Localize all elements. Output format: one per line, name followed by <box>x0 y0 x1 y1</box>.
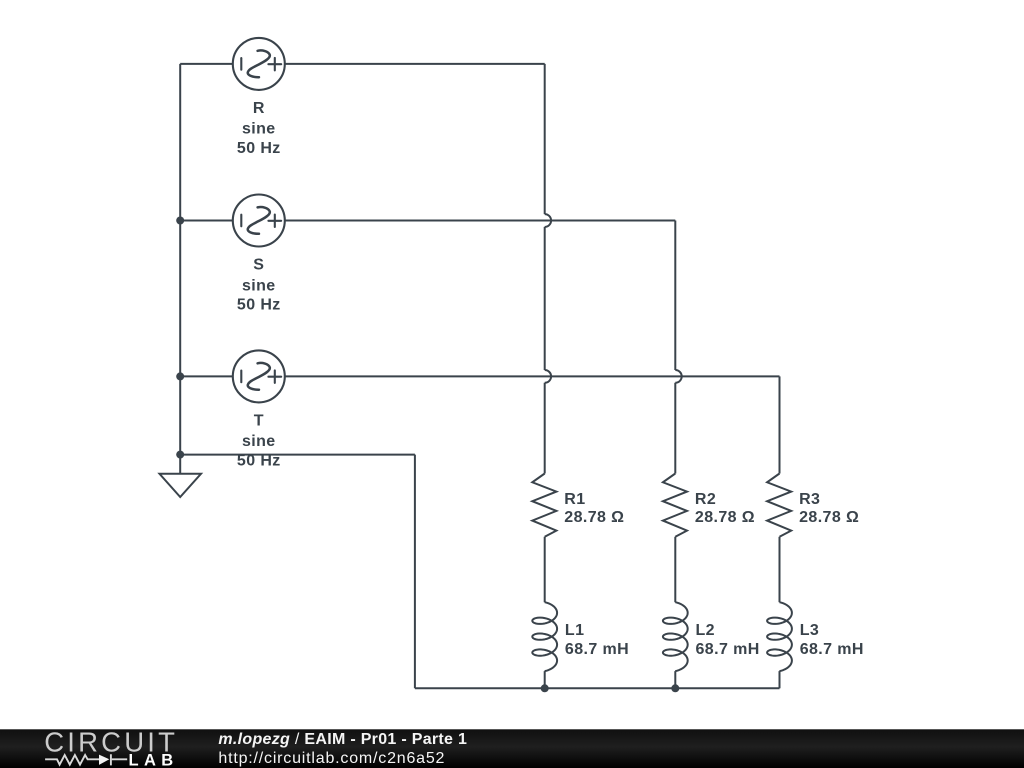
wire <box>544 537 546 602</box>
node node ground rail <box>176 451 184 459</box>
hop: branch1 over T row <box>545 370 551 383</box>
resistor R1 <box>532 474 556 537</box>
inductor L1 <box>532 602 557 671</box>
ground <box>160 455 202 497</box>
resistor R3 <box>767 474 791 537</box>
wire <box>674 537 676 602</box>
node node branch2 bottom <box>671 684 679 692</box>
wire <box>779 537 781 602</box>
hop: branch1 over S row <box>545 214 551 227</box>
wire: left rail <box>179 64 181 455</box>
node node T rail <box>176 372 184 380</box>
voltage source S (V2) <box>233 195 285 247</box>
wire: branch2 vertical <box>674 221 676 371</box>
wire: ground row <box>180 454 415 456</box>
wire <box>779 671 781 688</box>
node node S rail <box>176 217 184 225</box>
wire: S row <box>180 220 675 222</box>
svg-text:http://circuitlab.com/c2n6a52: http://circuitlab.com/c2n6a52 <box>218 750 445 767</box>
wire <box>544 227 546 370</box>
wire: neutral down <box>414 455 416 689</box>
wire: branch3 vertical <box>779 376 781 473</box>
wire <box>544 671 546 688</box>
wire: T row <box>180 375 779 377</box>
logo resistor-diode graphic <box>45 754 127 765</box>
wire <box>674 383 676 474</box>
wire: bottom rail <box>415 687 780 689</box>
wire <box>544 383 546 474</box>
svg-text:m.lopezg / EAIM - Pr01 - Parte: m.lopezg / EAIM - Pr01 - Parte 1 <box>218 731 467 748</box>
wire: branch1 vertical <box>544 64 546 214</box>
resistor R2 <box>663 474 687 537</box>
node node branch1 bottom <box>541 684 549 692</box>
wire <box>674 671 676 688</box>
voltage source R (V1) <box>233 38 285 90</box>
hop: branch2 over T row <box>675 370 681 383</box>
wire: R row <box>180 63 545 65</box>
inductor L2 <box>663 602 688 671</box>
svg-text:LAB: LAB <box>129 752 179 768</box>
voltage source T (V3) <box>233 350 285 402</box>
inductor L3 <box>767 602 792 671</box>
